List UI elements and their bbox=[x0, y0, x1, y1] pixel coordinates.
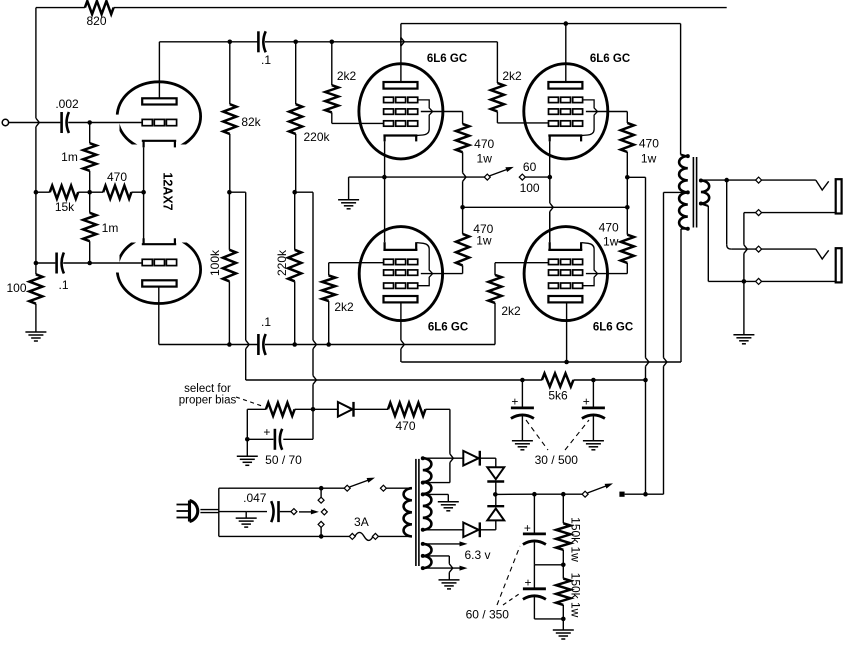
wire 6.3v center tap bbox=[423, 555, 450, 557]
wire 470 to HV tap bbox=[425, 408, 450, 410]
node 220k junction bbox=[292, 190, 297, 195]
node screen junction right top bbox=[625, 175, 630, 180]
wire feedback vertical left bbox=[35, 8, 37, 119]
diode D5 bias bbox=[338, 402, 353, 417]
wire node to 470 bbox=[90, 191, 104, 193]
V2 g3-cathode bracket bbox=[416, 100, 432, 136]
hop V2 plate lead over grid rail bbox=[401, 38, 404, 47]
wire sleeve to ground bbox=[743, 281, 745, 334]
wire ground switch stubs bbox=[320, 488, 322, 497]
switch terminal 60/100 right bbox=[519, 174, 525, 180]
node mains bottom junction bbox=[319, 534, 324, 539]
wire sleeve bus vertical bbox=[743, 213, 745, 245]
wire jack1 tip line bbox=[727, 179, 756, 181]
output transformer primary bbox=[679, 156, 688, 229]
node sleeve junction bbox=[742, 279, 747, 284]
wire D2 to node bbox=[495, 482, 497, 495]
ground mains lead bbox=[245, 512, 247, 518]
hop V4 cathode over screen line bbox=[550, 203, 553, 212]
wire feedback top rail right segment bbox=[114, 7, 727, 9]
V1a plate lead bbox=[158, 42, 160, 99]
svg-text:1w: 1w bbox=[477, 152, 493, 166]
resistor R6 100 bbox=[29, 274, 42, 303]
svg-text:470: 470 bbox=[474, 137, 494, 151]
hop V4 plate lead over coupling line bbox=[401, 340, 404, 349]
switch power terminal left bbox=[344, 485, 350, 491]
capacitor C8 .047 bbox=[277, 501, 280, 522]
wire lower coupling to 2k2s bbox=[265, 344, 495, 346]
node screen junction left bbox=[460, 205, 465, 210]
resistor R7 82k bbox=[223, 104, 236, 134]
V3 cathode bbox=[548, 134, 582, 136]
wire feedback top rail left segment bbox=[36, 7, 85, 9]
wire V4 cathode drop bbox=[549, 177, 551, 203]
V2 plate lead bbox=[400, 38, 402, 83]
svg-text:+: + bbox=[583, 395, 590, 409]
wire cap to grid V1b bbox=[63, 262, 142, 264]
switch jack2 sleeve contact bbox=[756, 278, 762, 284]
jack J2 body bbox=[836, 248, 842, 282]
node mains top junction bbox=[319, 486, 324, 491]
V1b plate bbox=[142, 280, 176, 286]
capacitor C2 .1 feedback bbox=[55, 253, 58, 274]
resistor R20 bias select bbox=[266, 403, 295, 416]
node cathodes V3 V4 bbox=[548, 175, 553, 180]
V1a plate bbox=[142, 98, 176, 104]
svg-text:82k: 82k bbox=[241, 115, 261, 129]
wire 100 to ground bbox=[35, 263, 37, 274]
V3 grid row g2 bbox=[549, 109, 559, 114]
wire mains bottom rail bbox=[219, 535, 321, 537]
svg-text:3A: 3A bbox=[354, 515, 369, 529]
wire bias drop bbox=[312, 192, 314, 340]
wire center tap riser bbox=[663, 366, 665, 494]
svg-text:2k2: 2k2 bbox=[501, 304, 521, 318]
wire screen line bbox=[463, 206, 628, 208]
switch jack2 tip contact bbox=[756, 246, 762, 252]
switch standby contact bbox=[619, 492, 624, 497]
V4 screen wire bbox=[421, 273, 463, 275]
svg-text:.1: .1 bbox=[261, 315, 271, 329]
svg-text:2k2: 2k2 bbox=[337, 69, 357, 83]
V3 plate lead bbox=[565, 24, 567, 82]
wire jog right from 220k junction bbox=[295, 191, 313, 193]
ground C5 bbox=[512, 440, 533, 442]
node grid V1a junction bbox=[87, 120, 92, 125]
capacitor C1 .002 bbox=[60, 112, 63, 133]
wire 470 to cathode junction bbox=[131, 191, 143, 193]
wire 1m tail leads bbox=[89, 192, 91, 213]
wire jack1 sleeve line bbox=[744, 212, 756, 214]
wire lower plate rail bbox=[401, 361, 681, 363]
jack J1 body bbox=[836, 179, 842, 213]
V1b cathode bbox=[142, 243, 176, 245]
node screen junction right bbox=[625, 205, 630, 210]
V5 grid row g2 bbox=[549, 270, 559, 275]
wire supply drop left bbox=[245, 192, 247, 340]
V2 plate bbox=[384, 82, 418, 89]
node cap 30/500 right bbox=[591, 378, 596, 383]
V5 screen wire bbox=[586, 273, 627, 275]
hop 6.3v center tap over bottom tap bbox=[449, 564, 452, 573]
wire cathode line mid bbox=[384, 176, 484, 178]
svg-text:60: 60 bbox=[523, 160, 537, 174]
resistor R16 470 1w screen V4 bbox=[456, 234, 469, 266]
ground bias cap bbox=[237, 455, 258, 457]
V4 cathode lead bbox=[384, 177, 386, 242]
resistor R3 15k bbox=[50, 186, 78, 199]
svg-text:50 / 70: 50 / 70 bbox=[265, 453, 302, 467]
wire cathode line to ground bbox=[349, 176, 385, 178]
svg-text:6L6 GC: 6L6 GC bbox=[427, 53, 467, 65]
V5 cathode lead bbox=[549, 212, 551, 243]
svg-text:100k: 100k bbox=[208, 249, 222, 276]
wire input line crossover to coupling cap bbox=[36, 122, 60, 124]
power transformer primary bbox=[404, 488, 412, 536]
power transformer HV secondary bbox=[423, 458, 432, 530]
svg-text:150k 1w: 150k 1w bbox=[569, 517, 583, 562]
wire 2k2 to grid V2 bbox=[331, 42, 333, 85]
node cap 30/500 left bbox=[520, 378, 525, 383]
capacitor C10 60/350 lower + bbox=[533, 565, 535, 588]
resistor R14 470 1w screen V3 bbox=[621, 123, 634, 152]
svg-text:+: + bbox=[511, 395, 518, 409]
V2 cathode lead bbox=[384, 141, 386, 177]
tube V1a envelope bbox=[117, 82, 200, 151]
hop center tap riser over plate rail bbox=[664, 358, 667, 367]
hop bias feed over HV top line bbox=[450, 454, 453, 463]
wire HV top tap to D1 bbox=[423, 457, 464, 459]
wire 220k upper leads bbox=[295, 42, 297, 104]
hop bias drop over supply line bbox=[313, 376, 316, 385]
resistor R5 1m tail bbox=[83, 213, 96, 241]
svg-text:+: + bbox=[524, 576, 531, 590]
node cathode network bbox=[87, 190, 92, 195]
wire upper rail to OT primary top bbox=[680, 24, 682, 155]
node bleeder tap bbox=[561, 492, 566, 497]
svg-text:1w: 1w bbox=[476, 234, 492, 248]
wire screen resistor V2 down bbox=[462, 152, 464, 173]
svg-text:6L6 GC: 6L6 GC bbox=[590, 53, 630, 65]
wire ground lead bleeder bbox=[562, 619, 564, 630]
svg-text:470: 470 bbox=[107, 170, 127, 184]
V2 grid row g2 bbox=[384, 109, 394, 114]
V3 plate bbox=[548, 82, 582, 89]
switch ground contact up bbox=[318, 497, 324, 503]
AC plug bbox=[190, 501, 198, 522]
V4 cathode bbox=[383, 249, 417, 251]
svg-text:6L6 GC: 6L6 GC bbox=[593, 322, 633, 334]
ground 6.3v center tap bbox=[439, 579, 460, 581]
switch power blade bbox=[350, 480, 370, 487]
input jack terminal bbox=[2, 119, 8, 125]
V5 g3-cathode bracket bbox=[582, 243, 598, 286]
resistor R21 470 bias bbox=[388, 403, 425, 416]
resistor R820 820 bbox=[85, 1, 114, 14]
ground HV center tap bbox=[438, 501, 459, 503]
resistor R13 2k2 grid stopper V3 bbox=[491, 83, 504, 111]
svg-text:.1: .1 bbox=[261, 53, 271, 67]
node bias cap ground corner bbox=[245, 437, 250, 442]
node grid V1b junction bbox=[87, 261, 92, 266]
hop bias drop over coupling line bbox=[313, 340, 316, 349]
wire bias node down bbox=[312, 409, 314, 439]
wire bleeder lower leads bbox=[562, 565, 564, 579]
node 82k-100k junction bbox=[227, 190, 232, 195]
V2 grid row g1 bbox=[384, 121, 394, 126]
diode D2 bbox=[487, 467, 504, 479]
wire jack2 tip line bbox=[731, 248, 756, 250]
svg-text:.047: .047 bbox=[243, 491, 267, 505]
tube V3 envelope bbox=[524, 64, 608, 159]
ground mains bbox=[236, 517, 257, 519]
wire bias cap line bbox=[247, 438, 273, 440]
wire supply line right bbox=[573, 379, 645, 381]
diode D3 bbox=[487, 505, 504, 507]
resistor R23 150k 1w lower bbox=[556, 579, 570, 605]
wire secondary bottom drop bbox=[701, 204, 708, 207]
V3 g3-cathode bracket bbox=[581, 100, 597, 136]
svg-text:+: + bbox=[524, 521, 531, 535]
output transformer secondary bbox=[701, 181, 709, 204]
hop feedback line over input line bbox=[36, 118, 39, 127]
svg-text:1m: 1m bbox=[61, 150, 78, 164]
V4 grid row g1 bbox=[384, 259, 394, 264]
hop sleeve bus over jack2 tip line bbox=[744, 245, 747, 254]
svg-text:220k: 220k bbox=[303, 130, 330, 144]
ground C6 bbox=[583, 440, 604, 442]
svg-text:820: 820 bbox=[86, 14, 106, 28]
wire HV bias tap bbox=[423, 482, 431, 484]
wire grid rail down to 2k2 V3 bbox=[496, 42, 498, 83]
capacitor C7 50/70 + bbox=[274, 429, 277, 450]
node V3 plate junction bbox=[564, 21, 569, 26]
wire bias resistor left corner bbox=[247, 408, 266, 410]
svg-text:1w: 1w bbox=[641, 152, 657, 166]
ground bleeder bbox=[553, 629, 574, 631]
capacitor C9 60/350 upper + bbox=[533, 494, 535, 533]
wire OT primary top lead bbox=[681, 155, 687, 157]
switch blade 60/100 bbox=[490, 169, 509, 176]
svg-text:100: 100 bbox=[6, 281, 26, 295]
wire jog right from 82k junction bbox=[229, 191, 245, 193]
resistor R12 470 1w screen V2 bbox=[456, 124, 469, 152]
V1a grid boxes bbox=[142, 119, 152, 125]
V5 plate lead bbox=[566, 302, 568, 362]
switch terminal 60/100 left bbox=[484, 174, 490, 180]
node cathodes V2 V1 bbox=[382, 175, 387, 180]
switch ground blade arrow bbox=[299, 511, 312, 513]
svg-text:470: 470 bbox=[395, 419, 415, 433]
wire V1b plate to lower coupling cap bbox=[159, 344, 259, 346]
wire standby to B+ risers bbox=[625, 493, 664, 495]
resistor R22 150k 1w upper bbox=[556, 523, 570, 550]
svg-text:1w: 1w bbox=[603, 235, 619, 249]
svg-text:+: + bbox=[263, 425, 270, 439]
V4 plate lead bbox=[400, 302, 402, 340]
hop screen feed over plate rail bbox=[646, 358, 649, 367]
wire HV bottom tap to D4 bbox=[423, 529, 464, 531]
V4 g3-cathode bracket bbox=[417, 243, 433, 286]
wire mains split vertical bbox=[218, 488, 220, 536]
wire bottom junction bbox=[534, 618, 563, 620]
svg-text:15k: 15k bbox=[55, 200, 75, 214]
svg-text:100: 100 bbox=[520, 181, 540, 195]
hop screen lead over cathode line bbox=[463, 173, 466, 182]
node 220k lower bottom bbox=[292, 342, 297, 347]
power transformer core bbox=[415, 459, 417, 566]
resistor R10 220k lower bbox=[288, 250, 301, 281]
switch ground terminal bbox=[291, 509, 297, 515]
wire bias cap ground lead bbox=[246, 439, 248, 456]
svg-text:1m: 1m bbox=[102, 221, 119, 235]
V5 cathode bbox=[548, 249, 582, 251]
diode D4 bbox=[463, 523, 478, 538]
wire mains cord bbox=[200, 509, 218, 511]
svg-text:30 / 500: 30 / 500 bbox=[535, 453, 579, 467]
node feedback takeoff bbox=[724, 178, 729, 183]
wire mains top rail bbox=[219, 487, 321, 489]
wire screen resistor V5 up bbox=[626, 207, 628, 234]
wire 1m to cathode row bbox=[89, 123, 91, 144]
node 100k bottom bbox=[227, 342, 232, 347]
wire death cap line bbox=[219, 511, 246, 513]
svg-text:6.3 v: 6.3 v bbox=[464, 548, 490, 562]
node bias junction bbox=[311, 407, 316, 412]
wire 2k2 to grid V3 bbox=[496, 111, 498, 123]
power transformer 6.3v winding bbox=[423, 544, 432, 568]
svg-text:220k: 220k bbox=[275, 249, 289, 276]
node 2k2 lower bottom bbox=[326, 342, 331, 347]
V3 grid row g3 bbox=[549, 97, 559, 102]
tube V1b envelope bbox=[117, 236, 200, 304]
wire cap to ground switch bbox=[280, 511, 291, 513]
switch ground pole bbox=[321, 509, 327, 515]
fuse F1 3A bbox=[349, 533, 355, 539]
wire 100k leads bbox=[228, 192, 230, 250]
wire switch to cathodes V3 V4 bbox=[525, 176, 550, 178]
wire lower rail to OT primary bottom bbox=[680, 229, 682, 362]
V4 grid row g3 bbox=[384, 283, 394, 288]
wire OT secondary top bbox=[701, 179, 727, 181]
V3 grid row g1 bbox=[549, 121, 559, 126]
jack J1 tip spring bbox=[816, 180, 829, 190]
switch jack1 tip contact bbox=[756, 177, 762, 183]
V1a cathode lead bbox=[143, 147, 145, 192]
node 220k top bbox=[293, 40, 298, 45]
node screen feed tap bbox=[643, 378, 648, 383]
svg-text:2k2: 2k2 bbox=[334, 300, 354, 314]
node V5 plate junction bbox=[564, 360, 569, 365]
callout dashes 30/500 bbox=[526, 420, 548, 450]
wire 6.3v bottom tap arrow bbox=[423, 567, 461, 569]
wire 220k lower leads bbox=[294, 192, 296, 250]
wire upper plate rail bbox=[401, 23, 681, 25]
resistor R19 5k6 bbox=[542, 373, 574, 386]
V5 plate bbox=[548, 296, 582, 302]
wire node to D3 bbox=[495, 494, 497, 506]
V5 grid row g1 bbox=[549, 259, 559, 264]
node bleeder mid bbox=[561, 563, 566, 568]
capacitor C6 30/500 right + bbox=[592, 380, 594, 407]
wire OT primary bottom lead bbox=[681, 228, 687, 230]
resistor R15 2k2 grid stopper V4 bbox=[322, 276, 335, 302]
svg-text:470: 470 bbox=[599, 221, 619, 235]
wire top rail to power switch bbox=[321, 487, 344, 489]
node 2k2 top bbox=[330, 40, 335, 45]
wire input to crossover bbox=[9, 122, 36, 124]
wire bleeder upper leads bbox=[562, 494, 564, 523]
hop supply drop over coupling line bbox=[246, 340, 249, 349]
switch ground contact down bbox=[318, 521, 324, 527]
svg-text:2k2: 2k2 bbox=[502, 69, 522, 83]
diode D1 bbox=[463, 451, 478, 466]
jack J2 tip spring bbox=[816, 249, 829, 259]
switch standby terminal bbox=[582, 491, 588, 497]
wire screen resistor V4 up bbox=[462, 207, 464, 234]
wire bottom rail to fuse bbox=[321, 535, 349, 537]
svg-text:proper bias: proper bias bbox=[179, 395, 237, 407]
svg-text:5k6: 5k6 bbox=[548, 389, 568, 403]
V2 screen wire bbox=[421, 111, 463, 113]
node 82k top bbox=[228, 40, 233, 45]
resistor R9 100k bbox=[223, 250, 236, 281]
wire diode to 470 bbox=[355, 408, 389, 410]
node feedback left bbox=[34, 190, 39, 195]
svg-text:12AX7: 12AX7 bbox=[161, 172, 175, 210]
wire screen feed corner bbox=[627, 176, 645, 178]
resistor R8 220k upper bbox=[289, 104, 302, 134]
ground speaker return bbox=[733, 334, 754, 336]
node rectifier output bbox=[493, 492, 498, 497]
wire B+ line bbox=[496, 493, 535, 495]
resistor R4 470 cathode bbox=[103, 186, 131, 199]
callout dashes 60/350 bbox=[497, 546, 520, 605]
ground input network bbox=[25, 331, 46, 333]
wire bias node to diode bbox=[295, 408, 338, 410]
capacitor C3 .1 coupling upper bbox=[257, 31, 260, 52]
wire fuse to primary bbox=[378, 535, 412, 537]
svg-text:.1: .1 bbox=[58, 278, 68, 292]
node filter cap tap bbox=[532, 492, 537, 497]
ground cathode bbox=[338, 199, 359, 201]
wire coupling to grid rail upper bbox=[265, 41, 497, 43]
wire mid junction bbox=[534, 564, 563, 566]
wire jack2 tip feed bbox=[726, 180, 728, 245]
wire coupling to 2k2 V5 bbox=[494, 303, 496, 345]
wire switch to primary bbox=[386, 487, 412, 489]
V4 plate bbox=[384, 296, 418, 302]
svg-text:150k 1w: 150k 1w bbox=[569, 573, 583, 618]
tube V5 envelope bbox=[524, 227, 607, 321]
wire feedback node to 15k bbox=[36, 191, 50, 193]
capacitor C4 .1 coupling lower bbox=[257, 334, 260, 355]
resistor R18 470 1w screen V5 bbox=[621, 235, 634, 263]
tube V2 envelope bbox=[359, 64, 443, 159]
wire OT center tap bbox=[664, 191, 688, 193]
wire 2k2 to grid V4 bbox=[328, 301, 330, 345]
node cathode junction V1 bbox=[141, 190, 146, 195]
resistor R2 1m grid leak bbox=[83, 143, 96, 171]
svg-text:6L6 GC: 6L6 GC bbox=[428, 322, 468, 334]
switch power terminal right bbox=[380, 485, 386, 491]
wire 82k leads bbox=[229, 42, 231, 104]
switch jack1 sleeve contact bbox=[756, 210, 762, 216]
wire feedback divider vertical bbox=[35, 192, 37, 263]
V5 grid row g3 bbox=[549, 283, 559, 288]
output transformer core bbox=[692, 157, 694, 228]
V3 screen wire bbox=[586, 111, 627, 113]
